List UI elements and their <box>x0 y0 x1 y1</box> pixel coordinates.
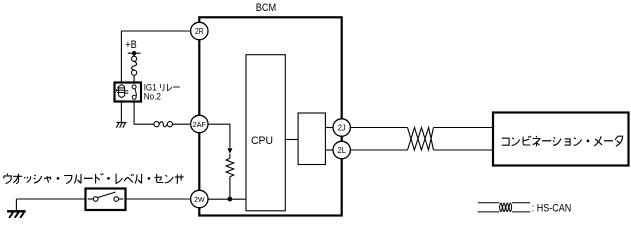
wire: drop to ground <box>15 199 17 211</box>
svg-text:2AF: 2AF <box>193 120 207 129</box>
diode arrow <box>227 148 232 153</box>
junction dot <box>228 197 233 202</box>
wire: relay contact down and right to fuse F2 <box>134 102 154 125</box>
wire: 2W to CPU <box>208 198 246 200</box>
wire: tap to fuse <box>133 53 135 56</box>
wire: resistor to junction <box>229 177 231 199</box>
wire: relay coil to ground <box>120 102 122 123</box>
label +B <box>125 39 137 51</box>
terminal 2AF <box>191 115 208 132</box>
label CPU <box>251 135 273 147</box>
wire: interface box to 2L <box>325 149 333 151</box>
twisted pair (CAN bus) <box>408 128 434 151</box>
CPU box U1 <box>246 55 285 211</box>
svg-text:No.2: No.2 <box>144 91 161 102</box>
relay coil <box>116 85 128 98</box>
wire: sensor line (ground to 2W) <box>16 198 190 200</box>
relay K1 box <box>115 83 142 102</box>
combination meter box <box>493 113 629 166</box>
switch SW1 box (washer level sensor) <box>86 189 126 211</box>
wire: interface box to 2J <box>325 127 333 129</box>
svg-text:: HS-CAN: : HS-CAN <box>532 202 572 214</box>
resistor R1 <box>226 158 234 177</box>
svg-text:BCM: BCM <box>256 2 277 14</box>
svg-text:2R: 2R <box>195 27 204 36</box>
wire: 2R to relay (left drop) <box>121 31 190 84</box>
fuse F2 (horizontal) <box>154 122 173 127</box>
wire: 2AF into resistor branch <box>208 124 230 148</box>
relay contact <box>132 85 137 99</box>
terminal 2J <box>333 119 350 136</box>
terminal 2L <box>333 141 350 158</box>
wire: fuse F2 to 2AF <box>173 123 191 125</box>
ground G1 (under relay) <box>116 123 126 128</box>
label IG1 relay No.2 <box>144 82 180 102</box>
wire: fuse to relay box <box>133 75 135 82</box>
ground G2 (main) <box>7 211 26 218</box>
svg-text:2L: 2L <box>338 146 347 155</box>
svg-text:2W: 2W <box>194 195 205 204</box>
legend twisted pair symbol <box>478 203 531 212</box>
wire: 2J to meter <box>350 127 493 129</box>
label BCM <box>256 2 277 14</box>
wire: 2L to meter <box>350 149 493 151</box>
fuse F1 (vertical) <box>132 56 137 75</box>
svg-text:2J: 2J <box>338 123 346 132</box>
BCM box <box>199 17 341 215</box>
label HS-CAN <box>532 202 572 214</box>
svg-text:CPU: CPU <box>251 135 273 147</box>
label washer fluid level sensor (katakana) <box>4 173 184 183</box>
wire: CPU to interface box <box>285 139 298 141</box>
terminal 2W <box>191 190 208 207</box>
interface box <box>298 113 325 165</box>
svg-text:+B: +B <box>125 39 137 51</box>
terminal 2R <box>191 22 208 39</box>
switch contacts and blade <box>88 192 124 201</box>
power tap bar and dot <box>128 51 141 55</box>
label combination meter (katakana) <box>502 136 623 146</box>
wire: arrow to resistor <box>229 154 231 158</box>
